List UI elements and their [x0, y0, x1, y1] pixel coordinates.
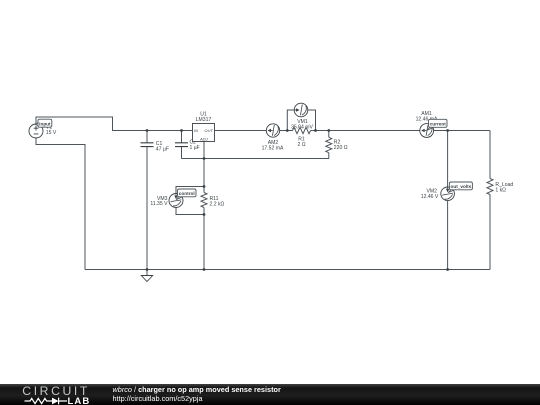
- wire AM2 to R1: [280, 130, 293, 132]
- wire R1 to AM1: [311, 130, 420, 132]
- svg-text:LAB: LAB: [68, 396, 91, 405]
- wire VM2 branch bottom: [447, 201, 449, 270]
- footer title text: [113, 385, 281, 394]
- voltmeter VM1: [294, 103, 308, 117]
- capacitor C1: [141, 143, 154, 147]
- wire right side down to R_Load: [489, 131, 491, 179]
- node R11 rail: [203, 268, 206, 271]
- CircuitLab logo: [0, 384, 105, 405]
- R11 labels: [210, 196, 225, 208]
- wire C1 top stub: [146, 131, 148, 143]
- wire VM3 top parallel: [176, 187, 204, 194]
- svg-text:15 V: 15 V: [46, 130, 57, 136]
- ammeter AM1: [420, 124, 434, 138]
- flag input: [36, 119, 52, 127]
- wire VM2 branch top: [447, 131, 449, 188]
- U1 pin labels: [194, 128, 213, 141]
- node VM1 left: [286, 129, 289, 132]
- wire VM1 right parallel: [308, 110, 316, 131]
- svg-text:control: control: [179, 191, 195, 196]
- R_Load labels: [495, 182, 513, 194]
- wire VM3 bottom parallel: [176, 208, 204, 215]
- wire R_Load bottom to rail: [489, 195, 491, 270]
- node VM2 rail: [446, 268, 449, 271]
- resistor R2: [326, 137, 332, 152]
- svg-text:1 kΩ: 1 kΩ: [495, 187, 506, 193]
- ground: [141, 270, 152, 282]
- svg-text:current: current: [430, 121, 447, 126]
- node R2 top: [327, 129, 330, 132]
- voltage source V1: [29, 124, 43, 138]
- flag current: [427, 119, 447, 130]
- wire OUT to AM2: [215, 130, 267, 132]
- wire V1 bottom to bottom rail: [36, 138, 85, 270]
- capacitor C2: [175, 143, 188, 147]
- VM1 labels: [291, 119, 313, 131]
- wire ADJ pin down: [203, 142, 205, 193]
- svg-text:12.46 V: 12.46 V: [421, 194, 439, 200]
- resistor R_Load: [487, 179, 493, 195]
- node VM1 right: [314, 129, 317, 132]
- svg-text:47 µF: 47 µF: [156, 146, 169, 152]
- wire C2 bottom to ADJ net: [181, 147, 183, 159]
- ammeter AM2: [266, 124, 279, 137]
- svg-text:LM317: LM317: [196, 117, 212, 123]
- wire V1 top to jog to main rail: [36, 117, 193, 131]
- AM1 labels: [416, 111, 438, 123]
- svg-text:2 Ω: 2 Ω: [297, 142, 305, 148]
- svg-text:OUT: OUT: [204, 128, 213, 133]
- resistor R1: [293, 127, 311, 133]
- node C2 top: [180, 129, 183, 132]
- V1 labels: [46, 125, 57, 137]
- flag control: [176, 189, 196, 200]
- flag out_volts: [448, 182, 472, 193]
- VM3 labels: [150, 196, 168, 207]
- wire R2 bottom stub: [328, 153, 330, 159]
- wire C1 bottom to rail: [146, 147, 148, 270]
- AM2 labels: [262, 140, 284, 152]
- wire VM1 left parallel: [287, 110, 294, 131]
- svg-text:17.52 mA: 17.52 mA: [262, 146, 284, 152]
- R2 labels: [334, 139, 348, 151]
- R1 labels: [297, 137, 305, 149]
- U1 labels: [196, 111, 212, 123]
- svg-text:1 µF: 1 µF: [190, 145, 200, 151]
- svg-text:2.2 kΩ: 2.2 kΩ: [210, 201, 225, 207]
- wire AM1 to right corner: [434, 130, 490, 132]
- footer url text: [113, 394, 203, 403]
- node ground rail: [146, 268, 149, 271]
- VM2 labels: [421, 189, 439, 200]
- svg-text:11.35 V: 11.35 V: [150, 201, 168, 207]
- svg-text:IN: IN: [194, 128, 198, 133]
- wire R11 bottom to rail: [203, 208, 205, 270]
- node ADJ net: [203, 157, 206, 160]
- svg-text:ADJ: ADJ: [199, 136, 209, 141]
- wire bottom rail: [85, 269, 490, 271]
- wire ADJ net horizontal to R2 bottom: [182, 158, 330, 160]
- voltmeter VM3: [169, 194, 183, 208]
- footer bar: [0, 384, 540, 405]
- svg-text:220 Ω: 220 Ω: [334, 145, 348, 151]
- node R11 top: [203, 185, 206, 188]
- voltmeter VM2: [441, 187, 455, 201]
- svg-text:input: input: [39, 121, 51, 126]
- node VM2 top: [446, 129, 449, 132]
- wire C2 top stub: [181, 131, 183, 143]
- node C1 top: [146, 129, 149, 132]
- node R11 bottom: [203, 213, 206, 216]
- svg-text:out_volts: out_volts: [450, 184, 471, 189]
- C1 labels: [156, 141, 169, 153]
- wire R2 top stub: [328, 131, 330, 138]
- regulator U1 LM317: [193, 124, 215, 142]
- resistor R11: [201, 193, 207, 208]
- C2 labels: [190, 140, 200, 152]
